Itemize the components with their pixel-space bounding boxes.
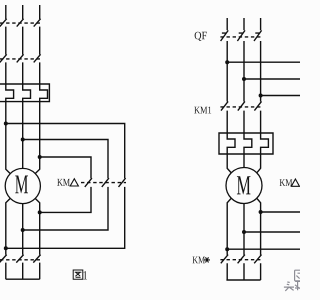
- junction node C-delta: [259, 94, 263, 98]
- watermark glyph TIAO partial: [295, 281, 300, 290]
- wire: FR to motor V lead: [22, 102, 24, 169]
- contactor KM pole 3: [34, 54, 41, 84]
- thermal relay FR heater 1: [6, 84, 14, 102]
- thermal relay FR heater 2: [23, 84, 31, 102]
- wire: star point bar (right): [226, 279, 260, 281]
- wire: phase A supply drop: [226, 18, 228, 30]
- contactor KM-delta pole 1: [40, 178, 92, 212]
- junction node L1-delta: [4, 122, 8, 126]
- label KM-star text: [193, 257, 205, 264]
- breaker QF pole 2: [237, 30, 245, 101]
- label delta triangle (right): [291, 179, 299, 186]
- junction node A-delta: [225, 60, 229, 64]
- wire: U2 tap going right: [227, 248, 300, 250]
- junction node motor V to delta: [21, 228, 25, 232]
- contactor KM-Y pole 3: [33, 255, 40, 280]
- switch QS pole 1: [0, 19, 7, 55]
- thermal relay FR2 heater 1: [227, 133, 235, 154]
- junction node motor W to delta: [38, 210, 42, 214]
- contactor KM pole 1: [0, 54, 7, 84]
- wire: V2 tap going right: [244, 231, 300, 233]
- breaker QF pole 3: [254, 30, 262, 101]
- motor M2 letter: [237, 176, 251, 194]
- watermark glyph TU partial: [295, 270, 300, 281]
- wire: phase C supply drop: [260, 18, 262, 30]
- wire: phase B supply drop: [243, 18, 245, 30]
- label QF: [195, 32, 207, 41]
- contactor KM pole 2: [17, 54, 24, 84]
- label figure-1 digit: [83, 271, 87, 279]
- wire: motor W2 lead down: [35, 198, 40, 255]
- breaker QF pole 1: [221, 30, 229, 101]
- watermark glyph TOU: [284, 282, 294, 291]
- wire: W2 tap going right: [261, 211, 300, 213]
- contactor KM-delta pole 3: [6, 178, 126, 248]
- label KM-delta (right): [280, 179, 293, 186]
- wire: L2 tap to delta contact 2: [23, 140, 108, 179]
- thermal relay FR box: [0, 84, 49, 102]
- wire: star point bar: [6, 278, 40, 280]
- wire: FR2 to motor U lead: [227, 154, 231, 173]
- contactor KM1 pole 1: [221, 101, 228, 133]
- contactor KM-delta linkage (dashed): [81, 182, 126, 184]
- switch QS pole 2: [17, 19, 24, 55]
- thermal relay FR heater 3: [40, 84, 48, 102]
- thermal relay FR2 box: [219, 133, 273, 154]
- motor M2 circle: [226, 168, 262, 204]
- junction node L2-delta: [21, 138, 25, 142]
- label KM-star asterisk: [204, 257, 210, 262]
- contactor KM linkage (dashed): [0, 58, 41, 60]
- junction node L3-delta: [38, 155, 42, 159]
- thermal relay FR2 heater 2: [244, 133, 252, 154]
- wire: motor U2 lead down: [6, 198, 11, 255]
- junction node V2 tap: [242, 230, 246, 234]
- wire: C tap going right: [261, 95, 300, 97]
- contactor KM1 pole 3: [254, 101, 261, 133]
- wire: L1 tap to delta contact 3: [6, 124, 125, 179]
- label KM-delta (left): [57, 179, 70, 186]
- junction node motor U to delta: [4, 246, 8, 250]
- wire: phase L1 supply drop: [5, 5, 7, 19]
- contactor KM-star pole 3: [254, 255, 261, 280]
- label figure-1 glyph TU: [73, 270, 83, 279]
- wire: phase L2 supply drop: [22, 5, 24, 19]
- wire: motor W2 lead down: [257, 198, 261, 255]
- breaker QF linkage (dashed): [220, 36, 262, 38]
- motor M1 letter: [15, 175, 28, 193]
- wire: FR2 to motor V lead: [243, 154, 245, 168]
- junction node B-delta: [242, 77, 246, 81]
- contactor KM-Y pole 1: [0, 255, 7, 280]
- contactor KM-Y linkage (dashed): [0, 259, 41, 261]
- wire: L3 tap to delta contact 1: [40, 157, 91, 178]
- wire: B tap going right: [244, 78, 300, 80]
- label KM1: [194, 107, 211, 114]
- contactor KM1 pole 2: [238, 101, 245, 133]
- contactor KM-star pole 1: [221, 255, 228, 280]
- wire: FR to motor W lead: [35, 102, 40, 174]
- switch QS pole 3: [34, 19, 41, 55]
- contactor KM-delta pole 2: [23, 178, 109, 230]
- wire: motor U2 lead down: [227, 198, 231, 255]
- wire: motor V2 lead down: [243, 204, 245, 255]
- contactor KM1 linkage (dashed): [220, 106, 262, 108]
- contactor KM-Y pole 2: [16, 255, 23, 280]
- motor M1 circle: [5, 168, 40, 203]
- contactor KM-star pole 2: [238, 255, 245, 280]
- thermal relay FR2 heater 3: [261, 133, 269, 154]
- junction node U2 tap: [225, 247, 229, 251]
- wire: FR2 to motor W lead: [257, 154, 261, 173]
- switch QS linkage (dashed): [0, 22, 41, 24]
- wire: FR to motor U lead: [6, 102, 11, 174]
- contactor KM-star linkage (dashed): [220, 259, 262, 261]
- label delta triangle (left): [70, 179, 78, 186]
- wire: phase L3 supply drop: [39, 5, 41, 19]
- wire: motor V2 lead down: [22, 203, 24, 255]
- junction node W2 tap: [259, 210, 263, 214]
- wire: A tap going right: [227, 61, 300, 63]
